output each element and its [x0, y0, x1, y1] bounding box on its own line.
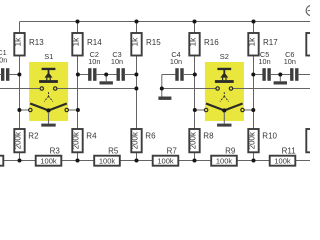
- svg-text:R8: R8: [203, 131, 214, 140]
- svg-text:R4: R4: [86, 131, 97, 140]
- svg-text:200k: 200k: [130, 132, 139, 149]
- svg-text:10n: 10n: [0, 56, 7, 65]
- svg-text:200k: 200k: [247, 132, 256, 149]
- svg-text:S2: S2: [220, 52, 229, 61]
- svg-text:R5: R5: [108, 146, 119, 155]
- svg-text:100k: 100k: [216, 157, 233, 166]
- svg-text:200k: 200k: [71, 132, 80, 149]
- svg-text:R15: R15: [146, 38, 161, 47]
- svg-text:R14: R14: [87, 38, 102, 47]
- svg-text:100k: 100k: [157, 157, 174, 166]
- svg-text:200k: 200k: [13, 132, 22, 149]
- svg-text:10n: 10n: [111, 57, 123, 66]
- svg-text:R9: R9: [225, 146, 236, 155]
- svg-text:1k: 1k: [187, 37, 197, 47]
- svg-text:R17: R17: [263, 38, 278, 47]
- svg-text:S1: S1: [44, 52, 53, 61]
- svg-text:R13: R13: [29, 38, 44, 47]
- svg-text:100k: 100k: [274, 157, 291, 166]
- svg-text:R6: R6: [145, 131, 156, 140]
- svg-text:R10: R10: [262, 131, 277, 140]
- svg-text:10n: 10n: [88, 57, 100, 66]
- svg-text:100k: 100k: [40, 157, 57, 166]
- svg-text:1k: 1k: [129, 37, 139, 47]
- svg-text:200k: 200k: [188, 132, 197, 149]
- svg-text:10n: 10n: [170, 57, 182, 66]
- svg-text:1k: 1k: [12, 37, 22, 47]
- svg-text:R7: R7: [167, 146, 178, 155]
- svg-text:R3: R3: [50, 146, 61, 155]
- svg-text:R16: R16: [204, 38, 219, 47]
- svg-text:R11: R11: [282, 146, 297, 155]
- svg-text:10n: 10n: [284, 57, 296, 66]
- svg-text:R2: R2: [28, 131, 39, 140]
- svg-text:1k: 1k: [246, 37, 256, 47]
- svg-text:100k: 100k: [99, 157, 116, 166]
- svg-text:10n: 10n: [259, 57, 271, 66]
- svg-text:1k: 1k: [70, 37, 80, 47]
